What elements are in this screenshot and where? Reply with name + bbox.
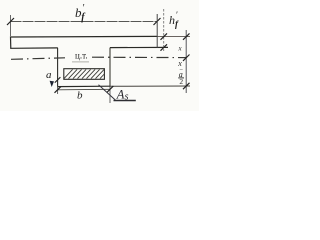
- tick on a dimension (As level): [55, 77, 61, 82]
- svg-text:b′f: b′f: [75, 3, 86, 23]
- web left extension down to b dim: [57, 87, 59, 94]
- web right extension down: [109, 86, 111, 103]
- tick top of h'f dimension: [161, 33, 168, 39]
- web bottom extension to right dim: [110, 85, 190, 87]
- arrowhead of a dimension pointing down: [50, 81, 54, 87]
- web bottom edge: [58, 85, 110, 87]
- tick at bottom level on right dim: [183, 83, 190, 89]
- flange bottom edge right part: [110, 46, 168, 48]
- extension line left (top of flange, left): [10, 15, 12, 36]
- flange right edge + extension up to b'f dim: [156, 14, 158, 48]
- dimension line b'f: [11, 21, 158, 23]
- leader line to As label: [99, 85, 117, 101]
- svg-text:As: As: [116, 88, 129, 103]
- faint smear under ц.т. text: [72, 61, 89, 63]
- fraction bar of lower stack: [178, 77, 184, 79]
- tick left of b'f dimension: [7, 18, 14, 25]
- tick right of b dimension: [107, 86, 114, 92]
- flange bottom edge left part: [10, 47, 58, 49]
- tick bottom of h'f dimension: [161, 44, 168, 50]
- svg-text:2: 2: [179, 77, 183, 86]
- right dimension line (x and x-a/2): [185, 30, 187, 93]
- centroid dash-dot line left span: [11, 58, 65, 60]
- tick at centroid level on right dim: [183, 55, 190, 61]
- svg-text:a: a: [46, 69, 52, 81]
- underline of As label: [114, 100, 136, 102]
- tick right of b'f dimension: [154, 18, 161, 25]
- centroid dash-dot line right span: [92, 56, 187, 58]
- svg-text:b: b: [77, 90, 83, 102]
- flange top extension to right dim: [158, 36, 191, 38]
- tick at flange-top level on right dim: [183, 33, 190, 39]
- hatched rectangle As zone outline: [64, 69, 105, 80]
- web left edge: [57, 48, 59, 87]
- svg-text:h′f: h′f: [169, 10, 179, 29]
- flange top edge: [10, 35, 158, 38]
- svg-text:x: x: [178, 45, 183, 53]
- svg-text:ц.т.: ц.т.: [75, 51, 88, 61]
- hatch strokes: [64, 69, 104, 78]
- dimension line b: [58, 88, 110, 91]
- dimension line h'f (vertical, right of flange): [163, 9, 165, 51]
- flange left edge: [10, 37, 12, 49]
- tick left of b dimension: [55, 86, 62, 92]
- web right edge: [109, 48, 111, 87]
